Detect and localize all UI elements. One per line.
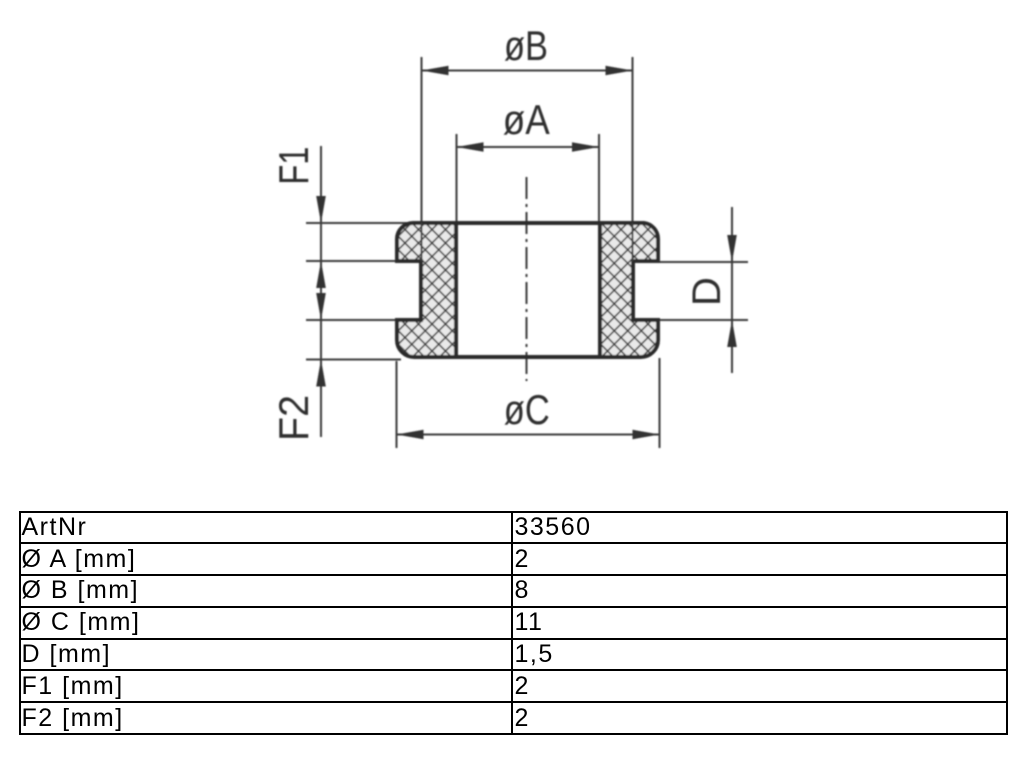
wire: F1/F2 extension lines (left) <box>306 146 421 437</box>
wire: oB extension lines passing through top flange hatch <box>421 223 423 261</box>
dimension F2 arrows <box>316 293 326 320</box>
wire: dimension line oB <box>422 57 633 223</box>
grommet bottom edge across hole <box>456 355 600 359</box>
svg-text:øB: øB <box>504 22 548 69</box>
dimension F1 arrows <box>316 196 326 223</box>
svg-text:øA: øA <box>503 96 550 143</box>
grommet left half section (cross-hatched) <box>397 223 456 357</box>
svg-text:F1: F1 <box>270 147 317 185</box>
grommet right half section (cross-hatched) <box>600 223 658 357</box>
svg-text:F2: F2 <box>270 395 317 441</box>
wire: D extension lines (right) <box>658 207 748 373</box>
dimension D arrows <box>727 235 737 262</box>
svg-text:øC: øC <box>504 386 550 433</box>
data table <box>19 511 1008 736</box>
wire: dimension line oC <box>397 358 660 448</box>
svg-text:D: D <box>685 277 729 306</box>
wire: dimension line oA <box>457 134 600 222</box>
grommet top edge across hole <box>456 221 600 225</box>
technical drawing of grommet <box>0 0 1024 500</box>
center line (dash-dot) <box>526 177 528 381</box>
